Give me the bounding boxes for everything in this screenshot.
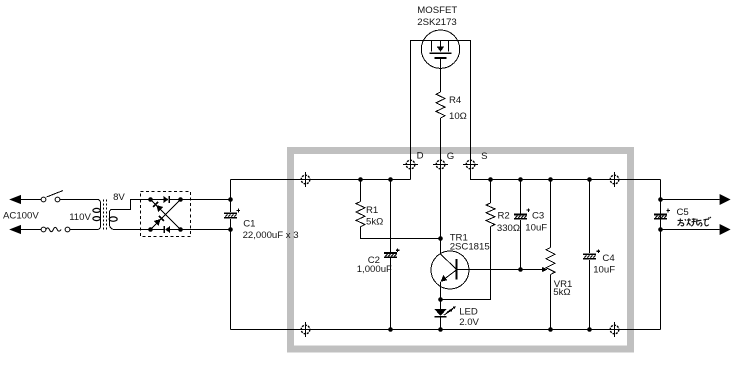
wire: R4 to G pad, G pad to TR1 collector	[440, 118, 442, 254]
pad (board corner bottom-left)	[300, 322, 311, 337]
MOSFET Q1 2SK2173 body	[421, 30, 459, 68]
diode D2 (bridge bottom, cathode left)	[164, 226, 166, 233]
label お好みで (output cap note)	[678, 217, 711, 226]
pad (board corner bottom-right)	[609, 322, 620, 337]
node: bridge DC+ junction	[178, 197, 183, 202]
wire: bridge diagonal BL-TR	[151, 200, 181, 230]
diode D4 (bridge lower diagonal)	[154, 215, 165, 226]
transformer T1 core	[103, 200, 105, 230]
svg-text:22,000uF x 3: 22,000uF x 3	[243, 230, 299, 241]
wire: secondary 8V tap to bridge (top)	[112, 200, 164, 210]
wire: R2 bottom to emitter node	[441, 227, 491, 300]
node: bridge AC2 junction	[148, 227, 153, 232]
node: C5 - tap	[658, 227, 663, 232]
node: bridge AC1 junction	[148, 197, 153, 202]
svg-text:S: S	[481, 151, 487, 162]
wire: output + to arrow	[661, 199, 720, 201]
node: C1 + tap	[228, 197, 233, 202]
pad (board corner top-right)	[609, 172, 620, 187]
wire: switch to transformer primary top	[60, 199, 97, 201]
svg-text:R4: R4	[449, 95, 462, 106]
wire: MOSFET drain lead to D pad	[411, 41, 432, 158]
pad (board corner top-left)	[300, 172, 311, 187]
transistor TR1 2SC1815 body	[431, 251, 469, 289]
diode D3 (bridge upper diagonal)	[152, 201, 163, 212]
svg-text:R2: R2	[498, 211, 510, 222]
wire: R1 bottom to G node	[361, 227, 441, 239]
node: VR1 ground junction	[548, 327, 553, 332]
fuse F1	[41, 227, 46, 232]
board outline (gray PCB frame)	[291, 151, 631, 350]
svg-text:MOSFET: MOSFET	[417, 5, 457, 16]
node: C3 top rail junction	[518, 177, 523, 182]
TR1 emitter diagonal with arrow	[444, 270, 457, 279]
wire: + rail (top left, C1 to D pad)	[231, 179, 411, 181]
svg-text:LED: LED	[459, 306, 478, 317]
svg-text:5kΩ: 5kΩ	[366, 217, 383, 228]
resistor R2	[490, 180, 492, 204]
input terminal arrow AC neutral (bottom)	[9, 225, 21, 234]
node: R1 / gate line junction	[438, 236, 443, 241]
pad G	[433, 160, 448, 169]
svg-text:C5: C5	[677, 207, 689, 218]
input terminal arrow AC hot (top)	[9, 195, 21, 204]
MOSFET internal symbol	[432, 41, 449, 52]
transformer T1 secondary winding	[110, 210, 114, 230]
capacitor C3	[520, 180, 522, 214]
node: bridge DC- junction	[178, 227, 183, 232]
wire: TR1 emitter down to LED node	[440, 282, 442, 300]
node: C2 top rail junction	[388, 177, 393, 182]
LED LED1	[440, 300, 442, 330]
node: C4 ground junction	[587, 327, 592, 332]
wire: MOSFET source lead to S pad	[449, 41, 471, 158]
wire: TR1 base line to VR1 wiper	[457, 269, 542, 271]
node: R2 top rail junction	[488, 177, 493, 182]
resistor R4	[436, 92, 445, 118]
svg-text:2SK2173: 2SK2173	[417, 17, 456, 28]
wire: D pad stub	[410, 157, 412, 180]
svg-text:8V: 8V	[113, 192, 125, 203]
pad S	[463, 160, 478, 169]
svg-text:2.0V: 2.0V	[459, 317, 479, 328]
wire: output - to arrow	[661, 229, 720, 231]
svg-text:2SC1815: 2SC1815	[450, 242, 490, 253]
TR1 collector diagonal	[441, 254, 457, 269]
pad D	[403, 160, 418, 169]
transformer T1 primary winding	[97, 200, 101, 230]
wire: bridge + output to C1	[170, 199, 231, 201]
node: R1 top rail junction	[358, 177, 363, 182]
wire: secondary bottom to bridge	[114, 229, 164, 231]
node: C4 top rail junction	[587, 177, 592, 182]
svg-text:C3: C3	[532, 211, 544, 222]
output terminal arrow (-)	[720, 224, 731, 235]
node: emitter / R2 / LED junction	[438, 297, 443, 302]
node: C1 - tap	[228, 227, 233, 232]
capacitor C4	[589, 180, 591, 254]
wire: output branch vertical	[660, 180, 662, 330]
wire: AC top arrow to switch	[21, 199, 41, 201]
node: C3 / base line junction	[518, 267, 523, 272]
bridge rectifier enclosure (dashed)	[141, 192, 191, 237]
wire: MOSFET gate lead to R4	[440, 59, 442, 92]
svg-text:10uF: 10uF	[593, 264, 615, 275]
svg-text:C1: C1	[243, 219, 255, 230]
wire: + rail (top right, S pad to right edge)	[471, 157, 661, 180]
wire: AC bottom arrow to fuse	[21, 229, 41, 231]
capacitor C5	[654, 214, 667, 220]
TR1 base bar	[455, 259, 457, 279]
node: LED ground junction	[438, 327, 443, 332]
svg-text:1,000uF: 1,000uF	[357, 264, 392, 275]
capacitor C1	[230, 180, 232, 213]
svg-text:G: G	[447, 151, 454, 162]
node: VR1 top rail junction	[548, 177, 553, 182]
svg-text:AC100V: AC100V	[3, 211, 39, 222]
LED light arrows	[444, 311, 451, 316]
diode D1 (bridge top, anode left)	[164, 196, 169, 203]
wire: bridge diagonal TL-BR	[151, 200, 181, 230]
wire: fuse to transformer primary bottom	[70, 229, 97, 231]
switch S1	[41, 197, 46, 202]
svg-text:10Ω: 10Ω	[449, 111, 467, 122]
resistor R1	[360, 180, 362, 202]
svg-text:110V: 110V	[69, 212, 91, 223]
svg-text:D: D	[417, 150, 424, 161]
capacitor C2	[390, 180, 392, 253]
output terminal arrow (+)	[720, 194, 731, 205]
svg-text:C4: C4	[602, 253, 615, 264]
svg-text:R1: R1	[366, 205, 378, 216]
svg-text:5kΩ: 5kΩ	[553, 287, 570, 298]
potentiometer VR1	[550, 180, 552, 248]
node: C2 ground junction	[388, 327, 393, 332]
node: C5 + tap	[658, 197, 663, 202]
svg-text:330Ω: 330Ω	[497, 223, 520, 234]
wire: ground rail (bottom)	[231, 329, 661, 331]
svg-text:10uF: 10uF	[525, 222, 547, 233]
wire: bridge - output to C1	[170, 229, 231, 231]
